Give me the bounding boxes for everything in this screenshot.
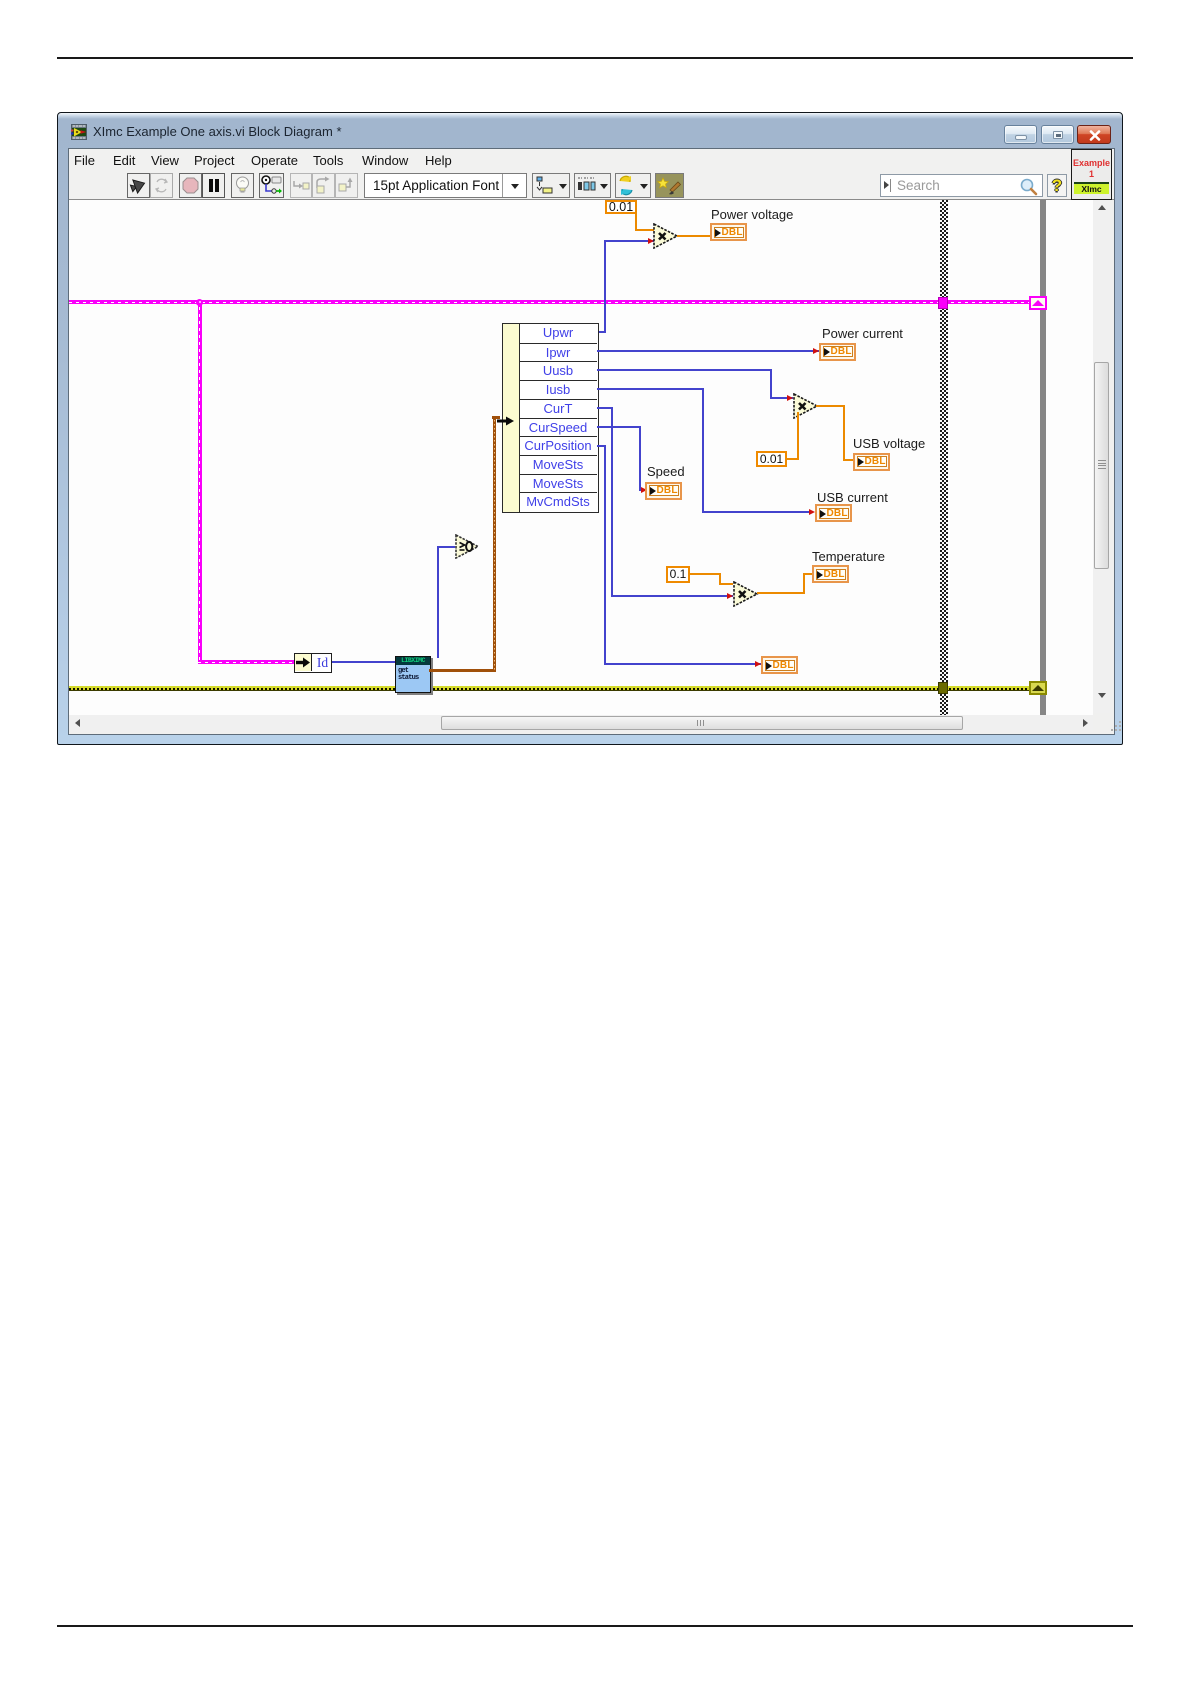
red wire-end arrow (USB current) bbox=[809, 509, 815, 515]
window: XImc Example One axis.vi Block Diagram bbox=[57, 112, 1123, 745]
multiply U2 (USB voltage) bbox=[793, 393, 819, 424]
label: USB current bbox=[817, 490, 888, 505]
red wire-end arrow (position DBL) bbox=[755, 661, 761, 667]
numeric constant 0.01 (USB) bbox=[756, 451, 787, 467]
menu bar bbox=[69, 149, 1114, 172]
title text bbox=[93, 124, 342, 139]
numeric constant 0.1 bbox=[666, 566, 690, 583]
wire: blue LIBXIMC up to >=0 bbox=[437, 546, 439, 658]
indicator DBL (position, unlabeled) bbox=[761, 656, 798, 674]
label: USB voltage bbox=[853, 436, 925, 451]
wire: cluster (magenta) main horizontal bbox=[69, 300, 1030, 304]
input arrow into unbundle bbox=[497, 413, 515, 431]
terminal: Id control bbox=[294, 653, 332, 673]
wire: orange U3 out to Temperature bbox=[757, 592, 805, 594]
label: Power current bbox=[822, 326, 903, 341]
label: Speed bbox=[647, 464, 685, 479]
wire: blue Iusb to USB current bbox=[597, 388, 704, 390]
toolbar bbox=[69, 172, 1114, 200]
corner resize grip bbox=[1111, 721, 1122, 732]
wire: blue CurPosition to DBL bbox=[597, 445, 606, 447]
indicator DBL (Power voltage) bbox=[710, 223, 747, 241]
content frame bbox=[68, 148, 1115, 735]
highlight execution (bulb) bbox=[231, 173, 254, 198]
indicator DBL (USB voltage) bbox=[853, 453, 890, 471]
wire: error cluster (olive dashed) bottom bbox=[69, 686, 1030, 688]
wire: blue CurT to multiply U3 bbox=[597, 407, 613, 409]
numeric constant 0.01 (top) bbox=[605, 200, 637, 214]
wire: orange U2 out to USB voltage bbox=[816, 405, 845, 407]
red wire-end arrow (U2 input) bbox=[787, 395, 793, 401]
v scrollbar bbox=[1093, 200, 1110, 713]
red wire-end arrow (U3 input) bbox=[727, 593, 733, 599]
indicator DBL (Temperature) bbox=[812, 565, 849, 583]
diagram viewport bbox=[69, 200, 1093, 715]
wire: blue Uusb to multiply U2 bbox=[597, 369, 772, 371]
wire: blue Ipwr to Power current bbox=[597, 350, 819, 352]
multiply U3 (Temperature) bbox=[733, 581, 759, 612]
wire: blue Upwr up to multiply U1 bbox=[597, 331, 606, 333]
search box bbox=[880, 174, 1043, 197]
align objects bbox=[532, 173, 570, 198]
indicator DBL (Speed) bbox=[645, 482, 682, 500]
wire: cluster (magenta) to Id terminal bbox=[198, 660, 295, 664]
top rule bbox=[57, 57, 1133, 59]
red wire-end arrow (U1 input) bbox=[648, 238, 654, 244]
indicator DBL (Power current) bbox=[819, 343, 856, 361]
caption buttons bbox=[1004, 125, 1037, 144]
shift register (magenta, right) bbox=[1029, 296, 1047, 310]
reorder / clean up bbox=[655, 173, 684, 198]
wire: orange 0.01 to U2 bbox=[786, 458, 799, 460]
wire: blue CurSpeed to Speed bbox=[597, 426, 641, 428]
retain wire values bbox=[259, 173, 284, 198]
VI icon pane bbox=[1071, 149, 1112, 200]
wire: brown cluster from LIBXIMC to unbundle bbox=[429, 669, 495, 672]
resize objects bbox=[615, 173, 651, 198]
wire: orange from 0.01 to multiply U1 bbox=[635, 200, 637, 231]
wire: blue Id to LIBXIMC bbox=[332, 661, 395, 663]
shift register (olive, right) bbox=[1029, 681, 1047, 695]
step over (disabled) bbox=[312, 173, 335, 198]
flat sequence frame edge (checkered column) bbox=[940, 200, 948, 715]
titlebar icon bbox=[71, 124, 87, 140]
wire: orange multiply U1 out bbox=[677, 235, 713, 237]
label: Temperature bbox=[812, 549, 885, 564]
help button bbox=[1047, 174, 1067, 197]
abort (stop) button bbox=[179, 173, 202, 198]
while loop right border bbox=[1040, 200, 1046, 715]
run button bbox=[127, 173, 150, 198]
font selector bbox=[364, 173, 527, 198]
indicator DBL (USB current) bbox=[815, 504, 852, 522]
tunnel: magenta on sequence edge bbox=[938, 297, 948, 309]
wire: brown into unbundle arrow bbox=[492, 416, 500, 419]
h scrollbar bbox=[69, 715, 1093, 732]
red wire-end arrow (Speed) bbox=[641, 487, 647, 493]
tunnel: olive on sequence edge bbox=[938, 682, 948, 694]
multiply U1 (Power voltage) bbox=[653, 223, 679, 254]
bottom rule bbox=[57, 1625, 1133, 1627]
unbundle by name node bbox=[502, 323, 666, 513]
wire: cluster (magenta) vertical branch bbox=[198, 300, 202, 663]
pause button bbox=[202, 173, 225, 198]
continuous run (disabled) bbox=[150, 173, 173, 198]
subVI: LIBXIMC get_status bbox=[395, 656, 431, 693]
wire: orange 0.1 to U3 bbox=[688, 573, 721, 575]
red wire-end arrow (Power current) bbox=[813, 348, 819, 354]
node: magenta wire junction bbox=[196, 299, 203, 306]
comparison >=0 bbox=[455, 534, 480, 564]
label: Power voltage bbox=[711, 207, 793, 222]
step out (disabled) bbox=[335, 173, 358, 198]
distribute objects bbox=[574, 173, 611, 198]
step into (disabled) bbox=[290, 173, 312, 198]
